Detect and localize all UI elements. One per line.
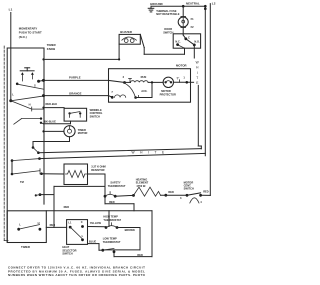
label resistor	[91, 165, 105, 173]
svg-text:MOTOR: MOTOR	[161, 89, 171, 93]
svg-text:BK-BLUE: BK-BLUE	[44, 120, 56, 124]
thermal fuse F1-F2	[178, 6, 194, 35]
resistor 3.27 K OHM	[64, 164, 88, 185]
wire neutral vertical and horizontal run	[40, 6, 206, 158]
svg-text:E: E	[196, 81, 198, 85]
wire white horizontal run	[37, 149, 201, 154]
door switch box	[173, 34, 200, 48]
svg-text:SAFETY: SAFETY	[110, 180, 121, 184]
svg-text:RED: RED	[203, 189, 209, 193]
fine print note line 2	[8, 269, 145, 273]
node L1	[9, 8, 13, 12]
label red right of cent switch	[203, 189, 209, 193]
svg-text:SWITCH: SWITCH	[62, 252, 72, 256]
motor internal start switch curve	[125, 83, 136, 97]
buzzer	[119, 34, 140, 44]
motor terminal 1	[174, 75, 194, 83]
wire orange	[42, 91, 109, 97]
label timer motor	[78, 128, 88, 135]
svg-text:AUX.: AUX.	[141, 89, 147, 93]
svg-text:C: C	[188, 36, 190, 40]
motor centrifugal switch	[180, 180, 202, 204]
label white horizontal	[132, 151, 170, 155]
label motor protector	[160, 89, 176, 96]
svg-text:H: H	[29, 102, 31, 106]
timer heat contact junction	[35, 186, 105, 227]
label ground	[150, 2, 163, 6]
wire high temp stat feed	[108, 211, 110, 227]
svg-text:TIMER: TIMER	[21, 245, 30, 249]
svg-text:THERMOSTAT: THERMOSTAT	[108, 184, 126, 188]
svg-text:ORANGE: ORANGE	[69, 91, 82, 95]
svg-text:WRINKLE: WRINKLE	[90, 108, 102, 112]
label momentary push to start	[19, 26, 42, 38]
timer contact H arm	[11, 101, 44, 111]
svg-text:BUZZER: BUZZER	[120, 30, 132, 34]
svg-text:TIMER: TIMER	[78, 128, 86, 132]
svg-text:L1: L1	[9, 8, 13, 12]
fine print note line 1	[8, 266, 145, 270]
wire cent switch to L2	[201, 194, 211, 196]
svg-text:RUN: RUN	[141, 75, 147, 79]
label high temp thermostat	[103, 214, 121, 221]
svg-text:BLUE: BLUE	[89, 240, 96, 244]
ground symbol	[148, 6, 154, 12]
wire L2 line	[209, 4, 211, 196]
wrinkle control switch	[64, 108, 87, 121]
svg-text:I: I	[197, 71, 198, 75]
svg-text:NUMBERS WHEN WRITING ABOUT THI: NUMBERS WHEN WRITING ABOUT THIS DRYER OR…	[8, 273, 146, 277]
wire white from door switch	[194, 45, 201, 149]
console dashed border	[4, 46, 8, 241]
high temp thermostat	[105, 223, 119, 229]
wire long red from timer	[46, 205, 152, 211]
wire buzzer left lead	[118, 44, 120, 60]
svg-text:C: C	[81, 220, 83, 224]
svg-text:LOW TEMP: LOW TEMP	[103, 236, 117, 240]
label thermal fuse	[156, 9, 180, 16]
timer cam contact TM lower	[12, 169, 43, 175]
buzzer switch arm	[140, 34, 184, 54]
svg-text:SWITCH: SWITCH	[184, 186, 194, 190]
svg-text:4750 W.: 4750 W.	[136, 184, 146, 188]
low temp thermostat	[101, 248, 115, 253]
wire buzzer feed from timer bus	[42, 58, 119, 60]
svg-text:S: S	[34, 84, 36, 88]
safety thermostat	[104, 192, 117, 198]
wire red-blk to wrinkle control	[42, 102, 64, 109]
timer heat contact L-H	[17, 221, 41, 231]
svg-text:RED: RED	[137, 253, 143, 257]
svg-text:RED-BLK: RED-BLK	[46, 102, 58, 106]
node L2	[212, 2, 216, 6]
wire bk-blue	[44, 120, 71, 124]
svg-text:DOOR: DOOR	[164, 27, 172, 31]
heat selector contacts	[68, 220, 84, 241]
svg-text:THERMOSTAT: THERMOSTAT	[103, 240, 121, 244]
svg-text:W: W	[196, 60, 199, 64]
svg-text:T: T	[196, 76, 198, 80]
svg-text:PURPLE: PURPLE	[69, 76, 81, 80]
momentary start push-button actuator	[20, 68, 34, 81]
svg-text:(N.O.): (N.O.)	[19, 35, 27, 39]
start switch contact S	[16, 80, 44, 89]
timer assembly box (console)	[7, 48, 44, 243]
wire safety thermostat lower red	[105, 196, 134, 211]
wire neutral bus	[151, 5, 207, 10]
label motor	[176, 63, 187, 67]
wire resistor to safety thermostat	[88, 174, 106, 195]
door switch contacts	[175, 35, 200, 46]
svg-text:HIGH TEMP: HIGH TEMP	[103, 214, 118, 218]
label door switch	[163, 27, 173, 34]
timer cam contact TM link	[11, 161, 24, 185]
label red under safety thermostat	[109, 200, 115, 204]
svg-text:PROTECTOR: PROTECTOR	[160, 92, 176, 96]
label neutral	[186, 1, 200, 5]
svg-text:MOTOR: MOTOR	[78, 131, 88, 135]
svg-text:NEUTRAL: NEUTRAL	[186, 1, 200, 5]
label low temp thermostat	[103, 236, 121, 243]
timer contact L (run) pivot	[9, 92, 43, 102]
svg-text:THERMOSTAT: THERMOSTAT	[103, 218, 121, 222]
motor run winding	[125, 75, 164, 82]
svg-text:RED: RED	[168, 190, 174, 194]
label timer knob	[47, 43, 56, 51]
svg-text:N.O.: N.O.	[194, 39, 200, 43]
wire red loop down to low temp stat	[114, 211, 152, 257]
svg-text:KNOB: KNOB	[47, 47, 55, 51]
svg-text:THERMAL FUSE: THERMAL FUSE	[156, 9, 177, 13]
svg-text:BROWN: BROWN	[125, 228, 135, 232]
motor box	[109, 69, 191, 103]
svg-text:CONTROL: CONTROL	[90, 111, 103, 115]
svg-text:TM: TM	[20, 180, 24, 184]
label wrinkle control switch	[90, 108, 103, 119]
svg-text:H: H	[38, 221, 40, 225]
label heating element	[136, 177, 149, 187]
svg-text:WHITE: WHITE	[132, 151, 170, 155]
wire to resistor	[40, 173, 64, 175]
label buzzer	[120, 30, 132, 34]
svg-text:3.27 K OHM: 3.27 K OHM	[91, 165, 105, 169]
wire brown	[103, 228, 140, 250]
svg-text:MOTOR: MOTOR	[176, 63, 187, 67]
timer contact L lower arm	[14, 117, 44, 124]
timer cam contact TM upper	[11, 157, 41, 162]
wire purple	[42, 76, 109, 82]
svg-text:SWITCH: SWITCH	[90, 115, 100, 119]
svg-text:GROUND: GROUND	[150, 2, 163, 6]
svg-text:'T': 'T'	[176, 77, 179, 81]
heat selector switch box	[67, 220, 88, 245]
timer box	[7, 211, 46, 249]
wire red timer to heat selector	[46, 223, 66, 227]
svg-text:RED: RED	[64, 205, 70, 209]
heating element	[115, 187, 187, 197]
label heat selector switch	[62, 245, 76, 255]
wire yellow	[88, 221, 107, 227]
label safety thermostat	[108, 180, 126, 188]
wire timer motor return	[32, 137, 70, 153]
svg-text:RESISTOR: RESISTOR	[91, 168, 104, 172]
motor protector	[163, 77, 173, 87]
motor terminal 7 and aux winding	[109, 81, 154, 99]
svg-text:RED: RED	[50, 223, 56, 227]
wire blue	[88, 240, 103, 251]
svg-text:N.C.: N.C.	[175, 39, 180, 43]
label red left of cent switch	[168, 190, 174, 194]
motor terminal 2	[109, 75, 132, 84]
svg-text:SWITCH: SWITCH	[163, 31, 173, 35]
svg-text:YELLOW: YELLOW	[90, 221, 102, 225]
timer motor M	[42, 126, 75, 137]
wire L1 lead down into timer	[10, 13, 12, 101]
svg-text:L2: L2	[212, 2, 216, 6]
fine print note line 3	[8, 273, 146, 277]
svg-text:NOT RESETTABLE: NOT RESETTABLE	[156, 12, 180, 16]
